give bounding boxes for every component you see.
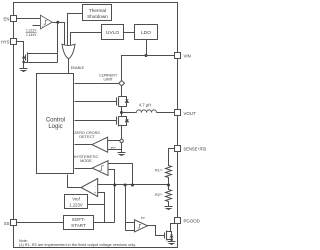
- svg-text:UVLO: UVLO: [106, 30, 119, 36]
- transistor Q1 (high-side FET): [117, 97, 129, 113]
- node LDO/VIN junction: [145, 54, 148, 57]
- node FB junction 2: [124, 184, 127, 187]
- wire Control Logic to Q2 gate: [75, 120, 117, 122]
- svg-text:LDO: LDO: [141, 30, 151, 36]
- wire Soft-Start output: [94, 222, 115, 224]
- svg-text:Shutdown: Shutdown: [87, 14, 108, 19]
- svg-text:R2(1): R2(1): [155, 193, 163, 197]
- svg-text:Vref: Vref: [72, 197, 80, 202]
- svg-text:SOFT-: SOFT-: [72, 217, 86, 222]
- wire UVLO to OR gate: [71, 33, 102, 46]
- wire FB junction 2 to PGOOD comparator inputs: [125, 185, 127, 231]
- wire Control Logic to current limit: [75, 83, 119, 85]
- svg-text:SS: SS: [4, 221, 10, 226]
- pin PGOOD: [175, 218, 200, 224]
- wire VIN pin to power path: [122, 56, 175, 81]
- wire ZC lower input to ground line: [108, 149, 122, 151]
- Vref block: [65, 195, 88, 209]
- node switch node SW: [120, 111, 123, 114]
- wire HYS pin to Q3 gate: [17, 42, 24, 69]
- label ZERO CROSS DETECT: [74, 130, 100, 139]
- Thermal Shutdown block: [83, 5, 112, 21]
- wire ZC output to Control Logic: [75, 144, 93, 146]
- transistor Q4 (PGOOD open-drain FET): [165, 224, 175, 241]
- svg-text:Thermal: Thermal: [89, 8, 106, 13]
- svg-text:Logic: Logic: [48, 124, 62, 130]
- svg-text:+: +: [42, 25, 44, 29]
- svg-text:R1(1): R1(1): [155, 169, 163, 173]
- comparator U3 hysteretic mode: [92, 161, 108, 176]
- LDO block: [135, 25, 158, 40]
- ground below R2: [165, 207, 173, 210]
- node Q4 source junction: [170, 238, 173, 241]
- wire Q2 source to ZC sense: [121, 126, 123, 140]
- Control Logic block: [37, 74, 74, 174]
- wire FB line: [98, 184, 169, 186]
- pin SS: [4, 220, 17, 227]
- wire ZC upper input to sense circle: [108, 140, 120, 142]
- wire SS pin to Soft-Start: [17, 222, 64, 224]
- label CURRENT LIMIT: [99, 74, 118, 82]
- wire U3 upper input from FB line: [108, 164, 133, 185]
- wire ZC sense to ground: [121, 143, 123, 153]
- comparator U4 (main error comparator): [81, 179, 98, 197]
- pin SENSE+/FB: [175, 146, 207, 152]
- UVLO block: [102, 25, 124, 40]
- comparator U5 power good (PV): [135, 216, 148, 232]
- wire U4 output to Control Logic: [68, 175, 81, 188]
- pin HYS: [1, 39, 17, 45]
- wire Vref to U4 plus input: [88, 193, 105, 205]
- wire SENSE pin to R1: [169, 149, 175, 165]
- current limit sense diamond: [119, 81, 125, 86]
- Soft-Start block: [64, 216, 94, 230]
- svg-text:LIMIT: LIMIT: [103, 77, 113, 81]
- svg-text:SENSE+/FB: SENSE+/FB: [184, 147, 207, 152]
- resistor R1: [155, 165, 172, 180]
- svg-text:PGOOD: PGOOD: [184, 219, 200, 224]
- node HYS gate junction: [22, 56, 25, 59]
- svg-text:Control: Control: [46, 118, 65, 124]
- transistor Q2 (low-side FET): [117, 113, 129, 127]
- svg-text:EN: EN: [4, 16, 10, 21]
- comparator U1 (EN threshold comparator): [40, 15, 52, 29]
- node FB junction 3: [131, 184, 134, 187]
- ground below Q4: [168, 242, 176, 245]
- wire reference input stub of U1: [33, 25, 41, 27]
- wire U5 output to Q4 gate: [148, 226, 165, 236]
- label HYSTERETIC MODE: [74, 154, 99, 163]
- svg-text:PV: PV: [141, 216, 145, 220]
- wire UVLO to LDO: [124, 32, 135, 34]
- wire Thermal Shutdown to OR gate: [68, 14, 83, 46]
- wire U1 output feedback down: [57, 23, 59, 63]
- pin VIN: [175, 53, 191, 59]
- value label 1.212V / 1.144V: [26, 29, 38, 38]
- ground below ZC sense: [118, 153, 126, 156]
- wire U3 lower input from FB line: [108, 170, 115, 223]
- svg-text:ZC: ZC: [110, 146, 116, 151]
- wire Q4 source to ground: [171, 240, 173, 242]
- IC package outline: [14, 3, 178, 248]
- wire R2 to ground: [168, 204, 170, 207]
- wire ENABLE (OR gate to Control Logic): [69, 59, 85, 74]
- node FB junction 1: [113, 184, 116, 187]
- wire Q3 drain line: [28, 53, 58, 55]
- svg-text:ENABLE: ENABLE: [71, 66, 85, 70]
- wire U1 output to OR gate: [53, 23, 65, 47]
- resistor R2: [155, 189, 172, 204]
- svg-text:1.212V: 1.212V: [26, 29, 37, 33]
- note text: [19, 239, 136, 247]
- ground below Q3: [20, 69, 28, 72]
- wire EN pin to comparator U1: [17, 18, 41, 20]
- svg-text:VIN: VIN: [184, 53, 191, 58]
- svg-text:START: START: [71, 223, 86, 228]
- node HYS source junction: [22, 61, 25, 64]
- wire U3 output to Control Logic: [75, 168, 93, 170]
- wire diamond to Q1 drain: [121, 86, 123, 97]
- node U1 output junction: [56, 21, 59, 24]
- inductor L1 4.7uH: [137, 103, 157, 113]
- pin EN: [4, 16, 17, 22]
- svg-text:HYS: HYS: [1, 40, 10, 45]
- pin VOUT: [175, 110, 197, 117]
- ZC sense element circle: [120, 139, 123, 142]
- node FB divider junction: [167, 184, 170, 187]
- wire Control Logic to Q1 gate: [75, 101, 117, 103]
- svg-text:1.144V: 1.144V: [26, 33, 37, 37]
- wire SW to inductor: [122, 112, 137, 114]
- transistor Q3 (HYS pull-down FET): [24, 53, 28, 63]
- wire R1 to FB node: [168, 180, 170, 189]
- comparator U2 zero cross (ZC): [92, 137, 116, 152]
- wire Vref branch to PGOOD comparator: [104, 205, 106, 223]
- OR gate G1: [62, 44, 75, 59]
- svg-text:4.7 µH: 4.7 µH: [139, 103, 151, 108]
- svg-text:VOUT: VOUT: [184, 111, 197, 116]
- svg-text:DETECT: DETECT: [79, 134, 95, 139]
- svg-text:(1) R1, R2 are implemented in: (1) R1, R2 are implemented in the fixed …: [19, 243, 136, 247]
- wire LDO to VIN rail: [146, 40, 148, 56]
- wire Q3 source line: [24, 62, 58, 64]
- svg-text:MODE: MODE: [80, 158, 92, 163]
- svg-text:1.223V: 1.223V: [69, 202, 82, 207]
- wire inductor to VOUT pin: [157, 112, 175, 114]
